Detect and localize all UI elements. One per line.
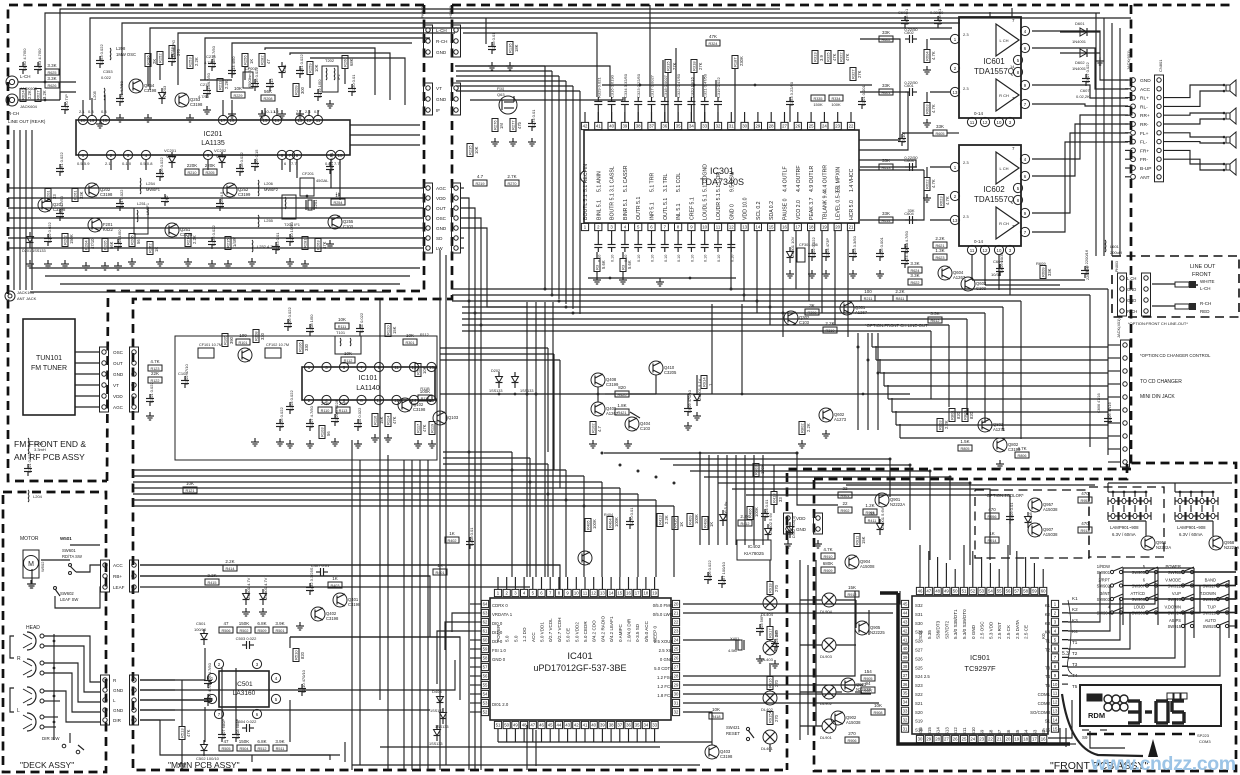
svg-text:R409: R409	[688, 515, 693, 525]
svg-text:24: 24	[970, 737, 975, 742]
wires AM/FM board horizontal bus	[8, 188, 424, 248]
resistor R335 150K	[811, 95, 825, 107]
wire top-left link2	[83, 95, 318, 116]
resistor R413b 2.2K	[657, 514, 669, 527]
resistor R912 15K	[845, 585, 859, 597]
svg-text:C270 0.01: C270 0.01	[629, 507, 634, 526]
svg-text:S23: S23	[915, 683, 923, 688]
transistor Q251 C3198	[165, 223, 193, 237]
wires deck motor and switches	[28, 545, 560, 608]
svg-text:R211: R211	[864, 297, 873, 301]
lamp DL903	[820, 638, 836, 659]
svg-text:52: 52	[483, 710, 488, 715]
svg-text:SW421: SW421	[726, 725, 740, 730]
wires top bus 2	[265, 48, 405, 105]
zener ZD401 4.7V	[243, 577, 252, 605]
svg-text:10: 10	[702, 225, 707, 230]
bus thick line left of IC901	[880, 593, 1070, 744]
resistor R114 47K	[385, 414, 397, 427]
svg-text:C3205: C3205	[664, 370, 677, 375]
svg-text:25: 25	[962, 737, 967, 742]
capacitor C201 0.022	[24, 452, 32, 476]
capacitor C312 vert	[266, 78, 274, 91]
svg-text:11: 11	[716, 225, 721, 230]
svg-text:64: 64	[483, 602, 488, 607]
svg-text:62: 62	[483, 620, 488, 625]
svg-text:C3198: C3198	[720, 754, 733, 759]
resistor R604 4.7K	[923, 39, 936, 74]
svg-text:10K: 10K	[474, 146, 479, 154]
svg-text:HCR 5.0: HCR 5.0	[849, 200, 855, 220]
svg-text:MOTOR: MOTOR	[20, 536, 39, 542]
svg-text:COM2: COM2	[1038, 701, 1051, 706]
svg-text:TDA1557Q: TDA1557Q	[974, 195, 1014, 204]
svg-text:29: 29	[926, 737, 931, 742]
svg-text:CREF 5.1: CREF 5.1	[689, 197, 695, 220]
svg-text:150K: 150K	[239, 739, 250, 744]
svg-text:C302 0.022: C302 0.022	[811, 237, 816, 258]
svg-text:C3199: C3199	[606, 382, 619, 387]
IC201 top pins 20-11	[78, 115, 322, 124]
resistor R501 3.9K	[273, 621, 287, 633]
wires IC401 left pin stubs	[437, 604, 481, 712]
svg-text:VC202: VC202	[214, 148, 227, 153]
svg-text:DL903: DL903	[820, 654, 833, 659]
svg-text:R213: R213	[170, 47, 175, 57]
capacitor C406 0.022	[704, 560, 712, 584]
connector JACK601 harness	[1126, 50, 1164, 182]
speakers RL RR FL FR	[1223, 80, 1236, 175]
svg-text:R259: R259	[308, 63, 313, 73]
svg-text:C301 0.001: C301 0.001	[861, 85, 866, 106]
svg-text:35: 35	[903, 691, 908, 696]
svg-text:SO/COM3: SO/COM3	[1030, 710, 1050, 715]
zener ZD1	[279, 62, 288, 78]
svg-text:47: 47	[266, 59, 271, 64]
wires left edge verticals	[14, 130, 32, 290]
svg-text:R106: R106	[298, 342, 303, 352]
svg-text:R918: R918	[768, 583, 773, 593]
svg-text:BINR 5.1: BINR 5.1	[623, 199, 629, 220]
svg-text:C205 4.5: C205 4.5	[219, 191, 224, 208]
svg-text:15: 15	[263, 118, 268, 123]
svg-text:PAUSE 0: PAUSE 0	[783, 198, 789, 220]
svg-text:C408 0.01: C408 0.01	[469, 527, 474, 546]
svg-text:2.2K: 2.2K	[192, 235, 197, 244]
svg-text:56: 56	[326, 431, 331, 436]
svg-text:2.2K: 2.2K	[664, 515, 669, 524]
svg-text:SCL 0.2: SCL 0.2	[756, 201, 762, 220]
resistor R405 100K	[585, 519, 597, 532]
wire junction dots	[468, 288, 972, 508]
resistor R253 2.2K	[187, 56, 199, 69]
svg-text:R604: R604	[925, 51, 930, 61]
svg-text:A15008: A15008	[860, 564, 875, 569]
svg-text:9.5 CSW: 9.5 CSW	[729, 171, 735, 192]
svg-text:R202: R202	[63, 235, 68, 245]
resistor R418 10K	[709, 707, 723, 719]
svg-text:R301: R301	[405, 341, 414, 345]
resistor R623 4.7K	[938, 195, 950, 208]
svg-text:ACC: ACC	[1140, 87, 1151, 93]
resistor R806 4.7K	[1015, 446, 1029, 458]
svg-text:C103: C103	[799, 320, 810, 325]
svg-text:www.cndzz.com: www.cndzz.com	[1090, 753, 1236, 775]
svg-text:33K: 33K	[907, 208, 914, 213]
svg-text:15: 15	[617, 591, 622, 596]
svg-text:51: 51	[496, 723, 501, 728]
svg-text:5.0 CEDR: 5.0 CEDR	[583, 621, 588, 642]
label option 2color	[985, 493, 1024, 498]
coil L255	[258, 215, 274, 227]
lamp DL902	[820, 685, 836, 706]
svg-text:33K: 33K	[882, 211, 890, 216]
tape head assembly	[10, 625, 55, 740]
svg-text:44: 44	[903, 611, 908, 616]
IC901 bottom pins 30-16	[916, 735, 1046, 742]
svg-text:R254: R254	[333, 201, 342, 205]
svg-text:R506: R506	[221, 629, 230, 633]
svg-text:5.1 RECFIN: 5.1 RECFIN	[583, 164, 589, 192]
resistor R406 100K	[747, 507, 759, 520]
svg-text:HEAD: HEAD	[26, 625, 40, 631]
connector PN602/HO602	[421, 6, 461, 57]
svg-text:10K: 10K	[338, 317, 346, 322]
svg-text:56: 56	[483, 674, 488, 679]
transistor Q904 A15008	[845, 555, 875, 569]
svg-text:R910: R910	[823, 555, 832, 559]
svg-text:R111: R111	[338, 325, 347, 329]
svg-text:C202 0.022: C202 0.022	[47, 222, 52, 243]
IC601 pins	[950, 18, 1029, 127]
svg-text:100K: 100K	[831, 102, 841, 107]
zener ZD501 9.1V	[694, 378, 703, 406]
svg-text:22K: 22K	[151, 371, 159, 376]
capacitor C506 4.7/50	[204, 680, 212, 706]
svg-text:VCO 2.0: VCO 2.0	[796, 200, 802, 220]
resistor R277 47b	[509, 119, 522, 147]
display underline dashes	[1082, 730, 1211, 744]
svg-text:S10: S10	[971, 727, 976, 735]
resistor R411 33	[865, 511, 879, 523]
board border: line out front option box (dashed)	[1112, 256, 1239, 317]
IC301 top pins 42-22 with function labels	[581, 112, 855, 192]
svg-text:22: 22	[842, 501, 848, 506]
svg-text:COM1: COM1	[1038, 692, 1051, 697]
svg-text:0-14: 0-14	[974, 111, 984, 116]
svg-text:S6: S6	[1006, 729, 1011, 735]
svg-text:BEEP 0: BEEP 0	[653, 626, 658, 642]
svg-text:820: 820	[618, 385, 626, 390]
svg-text:470: 470	[1081, 521, 1089, 526]
svg-text:29: 29	[674, 683, 679, 688]
capacitor C505 4.7/50	[204, 662, 212, 688]
svg-text:1.2K: 1.2K	[865, 503, 874, 508]
svg-text:2.2K: 2.2K	[224, 80, 229, 89]
IC901 top pins 46-60	[916, 587, 1046, 594]
svg-text:C607: C607	[1080, 88, 1090, 93]
zener ZD301 10V	[787, 236, 796, 263]
svg-text:30: 30	[918, 737, 923, 742]
svg-text:46: 46	[918, 589, 923, 594]
svg-text:GND: GND	[1140, 78, 1151, 84]
svg-text:0.10: 0.10	[664, 255, 668, 262]
svg-text:27: 27	[782, 124, 787, 129]
op-amp IC601 TDA1557Q body	[959, 17, 1021, 118]
svg-text:F[4]: F[4]	[497, 86, 504, 91]
svg-text:1K: 1K	[449, 531, 455, 536]
svg-text:IC901: IC901	[970, 653, 990, 662]
capacitor C262 extra	[56, 195, 64, 221]
svg-text:R282: R282	[260, 55, 265, 65]
capacitor C603 0.22/50	[904, 155, 918, 171]
svg-text:LAMP901~908: LAMP901~908	[1110, 525, 1139, 530]
svg-text:10/35: 10/35	[991, 272, 1002, 277]
svg-text:54: 54	[483, 692, 488, 697]
capacitor C270b	[626, 507, 634, 529]
wires IC301 outputs to IC601/IC602	[859, 39, 924, 220]
svg-text:R418: R418	[711, 715, 720, 719]
svg-text:GND: GND	[1127, 298, 1136, 303]
resistor R502 150K	[237, 621, 251, 633]
svg-text:5.0 VDD2: 5.0 VDD2	[574, 622, 579, 642]
svg-text:20: 20	[81, 118, 86, 123]
svg-text:47: 47	[926, 589, 931, 594]
svg-text:PN602: PN602	[421, 6, 425, 18]
svg-text:55: 55	[997, 589, 1002, 594]
svg-text:12: 12	[729, 225, 734, 230]
svg-text:KIA78025: KIA78025	[744, 551, 764, 556]
wires bottom rails	[352, 712, 712, 765]
svg-text:S36/DT3: S36/DT3	[936, 620, 941, 639]
capacitor C108 1/50	[306, 314, 314, 336]
svg-text:C353: C353	[103, 69, 113, 74]
svg-text:S24 2.5: S24 2.5	[915, 674, 930, 679]
svg-text:C3198: C3198	[190, 102, 203, 107]
svg-text:1SS133: 1SS133	[489, 389, 503, 393]
svg-text:C102: C102	[178, 371, 188, 376]
svg-text:3.3mH: 3.3mH	[34, 447, 46, 452]
svg-text:C110 0.022: C110 0.022	[357, 407, 362, 428]
svg-text:40: 40	[609, 124, 614, 129]
svg-text:R325: R325	[826, 52, 831, 62]
svg-text:TO CD CHANGER: TO CD CHANGER	[1140, 379, 1182, 385]
resistor R116 15K	[372, 414, 384, 427]
transistor Q252 C3199	[223, 183, 251, 197]
svg-text:1MW OSC: 1MW OSC	[116, 52, 136, 57]
resistor R206 56	[129, 234, 141, 247]
svg-text:300: 300	[300, 86, 305, 94]
transformer T201 IF1	[282, 195, 301, 227]
svg-text:20: 20	[835, 225, 840, 230]
diode D201 1SS133	[22, 232, 46, 253]
svg-text:L204: L204	[33, 494, 43, 499]
capacitor C125 0.022	[208, 225, 216, 249]
svg-text:3.1 TRL: 3.1 TRL	[663, 174, 669, 192]
svg-text:55: 55	[483, 683, 488, 688]
svg-text:37: 37	[649, 124, 654, 129]
svg-text:10: 10	[997, 120, 1002, 125]
capacitor C609 10/35	[991, 252, 1004, 277]
svg-text:5.0 VDD1: 5.0 VDD1	[540, 622, 545, 642]
svg-text:BAND: BAND	[1205, 578, 1216, 583]
svg-text:S8: S8	[988, 729, 993, 735]
wires right edge verticals to line-out	[1096, 13, 1120, 256]
IC602 pins	[950, 146, 1029, 255]
svg-text:5.0: 5.0	[513, 635, 518, 642]
svg-text:R112: R112	[420, 333, 429, 337]
svg-text:0.5-0.8: 0.5-0.8	[140, 161, 153, 166]
resistor R110 27K	[318, 401, 332, 413]
svg-text:R624: R624	[21, 90, 26, 100]
svg-text:HO602: HO602	[449, 6, 453, 18]
IC501 pins	[207, 659, 280, 718]
connector PN903 VDD GND	[784, 513, 823, 548]
capacitor C106 0.022	[284, 307, 292, 331]
svg-text:TBLANK 9.4: TBLANK 9.4	[822, 191, 828, 220]
svg-text:0/2.7 VCDH: 0/2.7 VCDH	[557, 617, 562, 642]
svg-text:32: 32	[716, 124, 721, 129]
capacitor C432 3.3/25S	[306, 567, 314, 595]
svg-text:100K: 100K	[694, 514, 699, 524]
svg-text:RR+: RR+	[1140, 113, 1150, 119]
svg-text:ZD1: ZD1	[282, 64, 287, 72]
svg-text:RR-: RR-	[1140, 122, 1149, 128]
capacitor C608 2200/16	[1081, 249, 1090, 280]
svg-text:DIR S.W: DIR S.W	[42, 736, 60, 741]
svg-text:R404: R404	[608, 518, 613, 528]
resistor R409 100K	[687, 514, 699, 527]
svg-text:FR-: FR-	[1140, 157, 1148, 163]
svg-text:20: 20	[1006, 737, 1011, 742]
zener ZD402 5.6V	[765, 512, 774, 540]
wire top-left link1	[148, 65, 345, 88]
svg-text:K2: K2	[1072, 607, 1078, 612]
svg-text:27: 27	[674, 665, 679, 670]
svg-text:0/4.2 CDO: 0/4.2 CDO	[592, 620, 597, 642]
op-amp IC501 LA3160 body	[219, 671, 269, 707]
svg-text:59: 59	[1032, 589, 1037, 594]
coil L203 3.3mH	[28, 438, 46, 454]
svg-text:R334: R334	[831, 97, 840, 101]
svg-text:R187: R187	[733, 57, 738, 67]
svg-text:CF102 10.7M: CF102 10.7M	[266, 343, 289, 347]
svg-text:4.7K: 4.7K	[931, 104, 936, 113]
svg-text:R609: R609	[1041, 267, 1046, 277]
svg-text:T5: T5	[1072, 684, 1078, 689]
resistor R953 470	[1078, 491, 1092, 503]
svg-text:15K: 15K	[861, 536, 866, 544]
svg-text:1.4 VHCC: 1.4 VHCC	[849, 168, 855, 192]
svg-text:VR60: VR60	[166, 154, 177, 159]
capacitor C102 47/10	[178, 364, 189, 388]
svg-text:L203: L203	[34, 441, 44, 446]
svg-text:56K: 56K	[264, 89, 272, 94]
svg-text:53: 53	[483, 701, 488, 706]
svg-text:0/4.2 RADIO: 0/4.2 RADIO	[600, 616, 605, 642]
svg-text:59: 59	[483, 647, 488, 652]
resistor R625 3.3K	[45, 63, 59, 75]
svg-text:S20: S20	[915, 710, 923, 715]
svg-text:220K: 220K	[187, 163, 198, 168]
svg-text:47K: 47K	[392, 416, 397, 424]
diode D404 1SS133	[435, 708, 449, 729]
svg-text:3.2K: 3.2K	[42, 90, 47, 99]
svg-text:R623: R623	[935, 256, 944, 260]
svg-text:2.3: 2.3	[963, 86, 969, 91]
transistor Q905 N22225	[855, 621, 885, 635]
svg-text:R108: R108	[254, 331, 259, 341]
wires head to connector	[44, 636, 175, 727]
svg-text:34: 34	[689, 124, 694, 129]
svg-text:47K: 47K	[845, 53, 850, 61]
svg-text:R121: R121	[185, 489, 194, 493]
capacitor C405 100/10	[718, 561, 726, 588]
wires lower-left fan to IC401	[133, 452, 674, 577]
svg-text:R113: R113	[339, 409, 348, 413]
resistor R120 15K	[385, 324, 397, 337]
svg-text:S16: S16	[918, 727, 923, 735]
svg-text:2.2K: 2.2K	[806, 423, 811, 432]
svg-text:29: 29	[756, 124, 761, 129]
svg-text:SDA 0.2: SDA 0.2	[769, 201, 775, 220]
switch DIR SW	[42, 733, 84, 754]
svg-text:K0: K0	[1041, 633, 1046, 639]
svg-text:C3198: C3198	[100, 192, 113, 197]
svg-text:47: 47	[223, 739, 229, 744]
capacitor C605 0.1	[901, 8, 909, 28]
wires IC901 to display	[1070, 743, 1076, 745]
capacitor C214 vert	[228, 56, 236, 78]
svg-text:100: 100	[239, 333, 247, 338]
svg-text:2.5 CK: 2.5 CK	[1006, 624, 1011, 639]
svg-text:12: 12	[983, 248, 988, 253]
svg-text:2.5 OSC: 2.5 OSC	[980, 621, 985, 639]
svg-text:A1273: A1273	[834, 417, 847, 422]
capacitors below IC301 pins	[594, 231, 735, 262]
svg-text:S30: S30	[915, 621, 923, 626]
resistor R914 1K	[985, 531, 999, 543]
svg-text:S14: S14	[936, 727, 941, 735]
svg-text:0.10: 0.10	[704, 255, 708, 262]
wires vertical bundle left-center	[469, 289, 481, 770]
svg-text:330: 330	[260, 332, 265, 340]
svg-text:32: 32	[903, 717, 908, 722]
capacitor C507 680P	[218, 719, 226, 742]
svg-text:R117: R117	[416, 423, 421, 433]
svg-text:R916: R916	[768, 678, 773, 688]
svg-text:7.7: 7.7	[334, 161, 340, 166]
svg-text:R: R	[17, 656, 21, 662]
capacitor C305 0.001	[876, 237, 884, 261]
svg-text:IC501: IC501	[235, 681, 253, 688]
wires front lamp drivers	[800, 560, 869, 740]
capacitor C109 0.0228	[331, 399, 339, 426]
svg-text:C107 4.7/50: C107 4.7/50	[309, 405, 314, 428]
svg-text:22: 22	[849, 124, 854, 129]
svg-text:13: 13	[953, 218, 958, 223]
svg-text:R229: R229	[233, 94, 242, 98]
resistor R210 220K	[185, 163, 199, 175]
svg-text:SP223: SP223	[1197, 733, 1210, 738]
resistor R803 2.2K	[937, 419, 949, 432]
wires long verticals center	[527, 302, 553, 770]
ground row under IC201	[26, 240, 334, 270]
svg-text:ZD401 4.7V: ZD401 4.7V	[246, 577, 251, 599]
diode C501 100/10	[194, 621, 208, 645]
svg-text:SW602: SW602	[60, 591, 74, 596]
transistor Q402 C3198	[311, 607, 339, 621]
